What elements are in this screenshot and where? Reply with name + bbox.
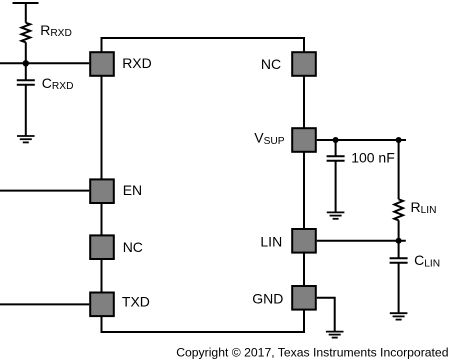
svg-text:GND: GND	[252, 291, 283, 307]
svg-text:NC: NC	[261, 56, 281, 72]
svg-text:EN: EN	[123, 182, 142, 198]
svg-text:LIN: LIN	[260, 234, 282, 250]
svg-text:Copyright © 2017, Texas Instru: Copyright © 2017, Texas Instruments Inco…	[176, 345, 448, 359]
svg-text:RXD: RXD	[122, 55, 152, 71]
svg-text:NC: NC	[123, 239, 143, 255]
svg-text:TXD: TXD	[122, 294, 150, 310]
svg-text:100 nF: 100 nF	[351, 150, 395, 166]
